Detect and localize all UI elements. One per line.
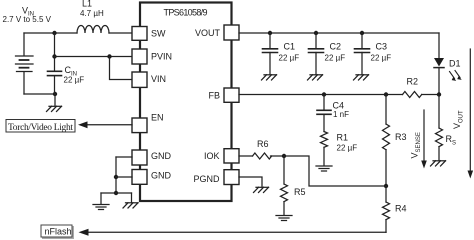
wire FB rail — [239, 94, 403, 96]
diode D1 (LED) — [434, 58, 444, 67]
svg-text:VOUT: VOUT — [452, 110, 465, 129]
svg-text:VSENSE: VSENSE — [410, 132, 423, 158]
wire GND vertical — [115, 157, 117, 193]
LED emission arrows — [450, 71, 462, 81]
pin VIN — [132, 72, 147, 87]
pin PGND — [224, 170, 239, 185]
svg-text:TPS61058/9: TPS61058/9 — [164, 8, 208, 18]
resistor R4 — [385, 186, 387, 202]
annotation VSENSE arrow — [423, 110, 425, 161]
node junction R3/R4 — [384, 184, 388, 188]
wire nFlash arrow line — [89, 231, 387, 233]
svg-text:C2: C2 — [330, 42, 342, 52]
node junction at CIN top rail — [52, 31, 56, 35]
node junction GND bottom — [114, 191, 118, 195]
svg-text:22 µF: 22 µF — [325, 54, 346, 63]
capacitor C4 — [317, 95, 331, 132]
ground (hatched) C3 — [354, 75, 369, 80]
resistor R6 — [253, 153, 272, 159]
terminal Torch/Video Light — [6, 120, 75, 133]
ground (earth) R1 — [316, 166, 332, 171]
node junction VIN branch — [107, 54, 111, 58]
node junction GND2 — [114, 175, 118, 179]
ground (hatched) C2 — [308, 75, 323, 80]
wire top rail VIN to L1 — [24, 32, 77, 34]
svg-text:SW: SW — [151, 29, 166, 39]
svg-text:22 µF: 22 µF — [337, 144, 358, 153]
node junction R5 top — [282, 154, 286, 158]
resistor R3 — [385, 95, 387, 125]
svg-text:22 µF: 22 µF — [64, 76, 85, 85]
ground (hatched) right of earth — [123, 193, 138, 208]
inductor L1 — [77, 26, 109, 34]
capacitor C3 — [355, 33, 370, 75]
wire R6 node to R3/R4 node — [284, 156, 386, 186]
svg-text:GND: GND — [151, 151, 172, 161]
ground (hatched) Rs — [431, 161, 446, 166]
wire PVIN rail — [55, 56, 133, 58]
annotation VOUT arrow — [469, 49, 471, 171]
ground (hatched) C1 — [262, 75, 277, 80]
svg-text:R5: R5 — [294, 187, 306, 197]
svg-text:C1: C1 — [284, 42, 296, 52]
resistor R5 — [283, 156, 285, 184]
resistor R1 — [321, 132, 328, 148]
ground (earth) left — [93, 193, 109, 210]
svg-text:C3: C3 — [376, 42, 388, 52]
svg-text:2.7 V to 5.5 V: 2.7 V to 5.5 V — [3, 15, 52, 24]
terminal nFlash — [43, 227, 74, 239]
wire GND1 to left — [116, 156, 132, 158]
node junction C3 — [360, 31, 364, 35]
svg-text:1 nF: 1 nF — [333, 110, 349, 119]
wire L1 to SW — [109, 32, 132, 34]
wire CIN branch vertical — [54, 33, 56, 71]
svg-text:PGND: PGND — [193, 174, 220, 184]
wire rail corner to D1 — [438, 33, 440, 58]
svg-text:C4: C4 — [333, 101, 345, 111]
resistor R2 — [403, 92, 422, 98]
ground (hatched) PGND — [254, 187, 269, 192]
wire VOUT rail — [239, 32, 439, 34]
pin VOUT — [224, 25, 239, 40]
pin IOK — [224, 149, 239, 163]
ground (hatched) below CIN — [47, 94, 62, 112]
svg-text:VOUT: VOUT — [195, 28, 221, 38]
node junction PVIN rail — [52, 54, 56, 58]
svg-text:RS: RS — [446, 134, 457, 147]
svg-text:22 µF: 22 µF — [371, 54, 392, 63]
svg-text:GND: GND — [151, 171, 172, 181]
wire GND2 to left — [116, 176, 132, 178]
pin GND 1 — [132, 150, 147, 165]
pin EN — [132, 118, 147, 133]
wire PGND to ground — [239, 177, 262, 187]
pin PVIN — [132, 49, 147, 64]
svg-text:R1: R1 — [337, 133, 349, 143]
svg-text:VIN: VIN — [151, 74, 166, 84]
pin SW — [132, 27, 147, 41]
node junction C1 — [268, 31, 272, 35]
svg-text:L1: L1 — [82, 0, 92, 9]
wire GND bottom horizontal — [101, 192, 132, 194]
ground (earth) R5 — [276, 216, 292, 221]
pin GND 2 — [132, 170, 147, 185]
battery B1 — [16, 33, 34, 94]
node junction R3 top — [384, 92, 388, 96]
wire IOK to R6 — [239, 155, 253, 157]
capacitor CIN — [48, 70, 62, 72]
svg-text:FB: FB — [208, 91, 220, 101]
capacitor C1 — [263, 33, 278, 75]
capacitor C2 — [309, 33, 324, 75]
svg-text:R3: R3 — [395, 132, 407, 142]
wire VIN branch — [110, 57, 133, 80]
IC U1 TPS61058/9 body — [140, 3, 232, 202]
svg-text:R6: R6 — [257, 139, 269, 149]
svg-text:22 µF: 22 µF — [279, 54, 300, 63]
svg-text:nFlash: nFlash — [45, 227, 72, 237]
node junction C2 — [314, 31, 318, 35]
svg-text:4.7 µH: 4.7 µH — [80, 9, 104, 18]
svg-text:Torch/Video Light: Torch/Video Light — [8, 123, 73, 133]
wire EN arrow to Torch box — [88, 124, 133, 126]
wire battery bottom to CIN bottom — [24, 93, 55, 95]
svg-text:PVIN: PVIN — [151, 52, 172, 62]
svg-text:EN: EN — [151, 113, 164, 123]
node junction C4 top — [322, 92, 326, 96]
svg-text:R2: R2 — [407, 77, 419, 87]
node junction CIN bottom — [53, 92, 57, 96]
resistor Rs — [438, 95, 440, 129]
node junction D1/Rs — [437, 92, 441, 96]
svg-text:IOK: IOK — [204, 151, 220, 161]
pin FB — [224, 88, 239, 102]
svg-text:R4: R4 — [395, 204, 407, 214]
svg-text:D1: D1 — [449, 59, 461, 69]
